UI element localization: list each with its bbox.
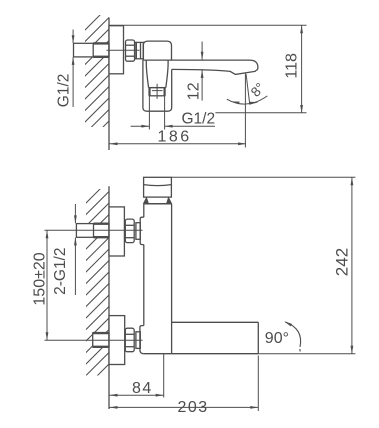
svg-text:242: 242 bbox=[332, 248, 351, 276]
handle neck wedges bbox=[144, 197, 172, 203]
upper centerline bbox=[45, 229, 143, 231]
outlet funnel under body bbox=[146, 60, 168, 88]
upper hex nut bbox=[125, 219, 134, 243]
svg-text:203: 203 bbox=[178, 399, 209, 416]
adapter collar bbox=[136, 42, 143, 58]
150±20 dimension bbox=[46, 230, 49, 340]
lower centerline bbox=[45, 339, 143, 341]
top extension line for 118 dim bbox=[109, 24, 307, 26]
svg-text:186: 186 bbox=[158, 129, 192, 146]
svg-text:118: 118 bbox=[284, 53, 301, 79]
lower connector sleeve bbox=[136, 332, 140, 349]
12 dimension (spout section height) bbox=[201, 42, 204, 101]
203 dimension bbox=[110, 356, 259, 412]
118 dimension line bbox=[300, 25, 303, 113]
supply pipe (top view) bbox=[74, 43, 110, 57]
pipe masks over hatch (bottom view) bbox=[76, 224, 109, 238]
spout arm (bottom view) bbox=[144, 322, 258, 353]
242 dimension bbox=[171, 177, 355, 353]
84 dimension bbox=[110, 354, 164, 398]
8 degree tilted line bbox=[246, 74, 250, 105]
spout top line and tip bbox=[143, 60, 258, 74]
upper escutcheon bbox=[109, 207, 124, 256]
lower supply pipe (bottom view) bbox=[93, 333, 109, 347]
wall line (bottom view) bbox=[108, 186, 110, 409]
186 dimension bbox=[110, 142, 247, 145]
svg-text:G1/2: G1/2 bbox=[55, 74, 72, 108]
8 degree arc with arrows bbox=[227, 96, 267, 105]
aerator centerline cross bbox=[152, 84, 163, 99]
svg-text:G1/2: G1/2 bbox=[182, 111, 216, 128]
upper connector sleeve bbox=[136, 223, 140, 240]
neck bottom line bbox=[144, 203, 172, 205]
svg-text:12: 12 bbox=[185, 82, 202, 100]
svg-text:150±20: 150±20 bbox=[32, 252, 49, 305]
lower hex nut bbox=[125, 328, 134, 352]
extension of arm bottom to 242 dim bbox=[258, 353, 355, 355]
G1/2 dimension (left supply thread) bbox=[72, 30, 75, 108]
wall hatching (bottom view) bbox=[80, 180, 109, 405]
lower escutcheon bbox=[109, 316, 125, 365]
hex nut (top view) bbox=[126, 40, 135, 61]
118 bottom extension line bbox=[215, 112, 306, 114]
G1/2 dimension (aerator thread) bbox=[131, 125, 215, 128]
G1/2 extension lines (bottom of top view) bbox=[149, 96, 164, 130]
body column (bottom view) bbox=[140, 204, 172, 354]
svg-text:90°: 90° bbox=[265, 330, 289, 347]
handle profile below body bbox=[143, 60, 172, 111]
2-G1/2 dimension bbox=[74, 204, 77, 295]
ring between nut and body bbox=[135, 43, 137, 59]
svg-text:84: 84 bbox=[132, 380, 153, 397]
pipe mask over hatch bbox=[74, 43, 110, 57]
svg-text:2-G1/2: 2-G1/2 bbox=[52, 248, 69, 295]
wall hatching (top view) bbox=[80, 6, 109, 150]
spout outlet reference vertical line bbox=[244, 73, 246, 148]
svg-text:8°: 8° bbox=[248, 80, 268, 100]
escutcheon (wall flange, top view) bbox=[109, 26, 124, 74]
upper supply pipe (bottom view) bbox=[76, 224, 109, 238]
90 degree swivel arc bbox=[284, 322, 300, 352]
wall line (top view) bbox=[108, 18, 110, 151]
handle cap (bottom view) bbox=[144, 177, 172, 197]
faucet body (top view) bbox=[143, 41, 171, 60]
aerator bbox=[149, 88, 164, 96]
centerline through pipe bbox=[107, 49, 140, 51]
